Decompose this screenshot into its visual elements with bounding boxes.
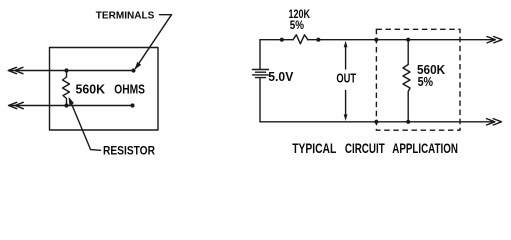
node B bottom terminal dot — [130, 103, 134, 107]
dashed component outline box — [376, 29, 460, 130]
wire top rail right of R2 — [308, 39, 495, 41]
node R2 left dot — [280, 38, 284, 42]
svg-text:5%: 5% — [418, 75, 434, 89]
arrow left top — [8, 67, 16, 73]
svg-text:CIRCUIT: CIRCUIT — [345, 141, 385, 156]
node R3 bottom dot — [406, 120, 410, 124]
svg-text:RESISTOR: RESISTOR — [103, 144, 155, 158]
leader line TERMINALS — [136, 15, 172, 69]
svg-text:TERMINALS: TERMINALS — [96, 11, 155, 22]
svg-text:OUT: OUT — [336, 71, 356, 86]
svg-text:TYPICAL: TYPICAL — [292, 141, 336, 156]
wire top-left terminal — [9, 70, 134, 72]
arrowhead of RESISTOR leader — [69, 97, 74, 105]
leader line RESISTOR — [70, 99, 101, 150]
node terminal bottom dot — [374, 120, 378, 124]
arrowhead of TERMINALS leader — [135, 62, 142, 70]
wire battery branch upper — [259, 40, 261, 70]
svg-text:560K: 560K — [76, 81, 106, 96]
svg-text:5%: 5% — [290, 18, 304, 32]
svg-text:5.0V: 5.0V — [268, 70, 294, 84]
wire bottom-left terminal — [9, 105, 133, 107]
node R1 bottom junction — [64, 103, 68, 107]
arrow right bottom — [487, 119, 495, 125]
battery BT1 plates — [253, 69, 269, 71]
node A top terminal dot — [131, 68, 135, 72]
resistor R2 (120K 5%) — [293, 35, 308, 44]
node terminal top dot — [374, 38, 378, 42]
OUT arrowhead up — [344, 41, 348, 48]
OUT indicator arrow lower — [345, 91, 347, 116]
svg-text:APPLICATION: APPLICATION — [392, 141, 458, 156]
svg-text:OHMS: OHMS — [114, 81, 145, 96]
arrow right top — [487, 37, 495, 43]
arrow left bottom — [9, 102, 17, 108]
wire bottom rail — [260, 121, 494, 123]
resistor R3 (560K 5%) leads and zigzag — [403, 40, 410, 122]
node R2 right dot — [316, 38, 320, 42]
node R1 top junction — [64, 68, 68, 72]
OUT arrowhead down — [344, 114, 348, 121]
component box — [50, 48, 159, 131]
wire top rail left of R2 — [260, 39, 293, 41]
wire battery branch lower — [259, 78, 261, 122]
OUT indicator arrow upper — [345, 46, 347, 70]
node R3 top dot — [406, 38, 410, 42]
resistor R1 (560K OHMS) — [63, 71, 70, 106]
